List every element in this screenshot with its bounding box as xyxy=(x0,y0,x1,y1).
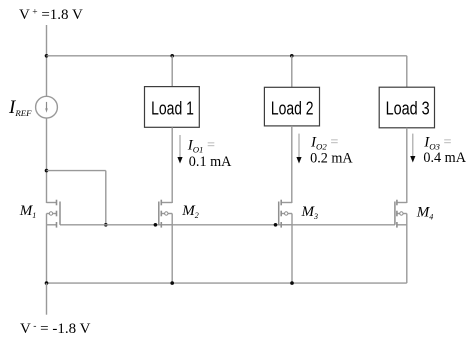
wire Load1 bottom to M2 drain xyxy=(171,127,173,203)
wire M4 source to bottom rail xyxy=(406,214,408,284)
wire Load3 bottom to M4 drain xyxy=(406,128,408,203)
wire M2 source to bottom rail xyxy=(171,214,173,284)
node bottom rail M2 junction xyxy=(170,281,174,285)
node bottom rail M3 junction xyxy=(290,281,294,285)
arrow IO1 xyxy=(177,135,182,164)
svg-text:Load 1: Load 1 xyxy=(151,98,194,119)
node M2 gate junction xyxy=(154,223,158,227)
svg-text:IREF: IREF xyxy=(8,97,32,118)
transistor M4 xyxy=(395,200,407,228)
arrow IO2 xyxy=(296,134,301,164)
svg-text:M1: M1 xyxy=(19,203,37,220)
svg-text:0.4 mA: 0.4 mA xyxy=(423,150,466,166)
node top rail left junction xyxy=(45,54,49,58)
svg-text:Load 2: Load 2 xyxy=(271,98,314,119)
wire M3 source to bottom rail xyxy=(291,214,293,284)
load box Load 1 xyxy=(145,87,200,128)
svg-text:IO3 =: IO3 = xyxy=(423,134,451,151)
arrow IO3 xyxy=(410,134,415,163)
svg-text:Load 3: Load 3 xyxy=(386,98,430,119)
wire Load2 top xyxy=(291,56,293,88)
wire bottom rail xyxy=(47,282,407,284)
transistor M3 xyxy=(279,200,292,228)
svg-text:0.1 mA: 0.1 mA xyxy=(189,154,232,170)
svg-text:M4: M4 xyxy=(416,205,434,222)
node bottom rail left junction xyxy=(45,281,49,285)
wire IREF to M1 drain xyxy=(46,118,48,203)
load box Load 2 xyxy=(264,87,319,126)
svg-text:IO2 =: IO2 = xyxy=(310,134,338,151)
current source IREF xyxy=(36,96,58,118)
wire diode tie vertical xyxy=(105,171,107,225)
wire Load2 bottom to M3 drain xyxy=(291,126,293,203)
node M1 diode tie xyxy=(45,169,49,173)
svg-text:M2: M2 xyxy=(181,203,199,220)
svg-text:V - = -1.8 V: V - = -1.8 V xyxy=(20,321,91,337)
svg-text:0.2 mA: 0.2 mA xyxy=(310,151,353,167)
transistor M1 xyxy=(47,200,61,228)
wire Load3 top xyxy=(406,56,408,87)
svg-text:M3: M3 xyxy=(301,204,319,221)
wire Load1 top xyxy=(171,56,173,87)
svg-text:IO1 =: IO1 = xyxy=(187,138,215,155)
node top rail Load2 tap xyxy=(290,54,294,58)
wire diode tie horizontal xyxy=(47,170,106,172)
wire V- lead xyxy=(46,283,48,315)
wire M1 source to bottom rail xyxy=(46,214,48,284)
load box Load 3 xyxy=(379,87,434,128)
transistor M2 xyxy=(159,200,172,228)
node M3 gate junction xyxy=(274,223,278,227)
wire V+ lead down to IREF xyxy=(46,25,48,96)
node top rail Load1 tap xyxy=(170,54,174,58)
wire common gate line xyxy=(60,224,395,226)
wire top supply rail xyxy=(47,55,407,57)
node gate line tie xyxy=(104,223,108,227)
svg-text:V + =1.8 V: V + =1.8 V xyxy=(19,7,83,23)
